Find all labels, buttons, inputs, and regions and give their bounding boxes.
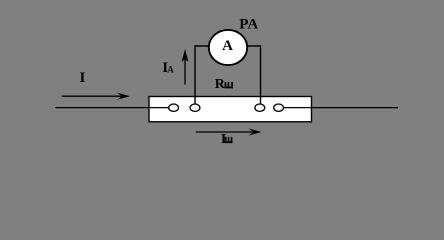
svg-text:A: A [167,65,174,75]
wire main right [284,107,399,109]
resistor Rsh body (shunt) [149,97,312,122]
terminal 4 [274,104,284,111]
svg-text:PA: PA [239,17,258,33]
label Rsh subscript (Cyrillic Sha drawn) [225,82,233,88]
terminal 1 [169,104,179,111]
arrow current Ish [196,128,262,135]
svg-text:I: I [80,70,86,86]
terminal 2 [190,104,200,111]
terminal 3 [255,104,265,111]
ammeter PA [209,30,247,65]
svg-text:A: A [222,38,233,54]
arrow current IA [182,49,189,85]
wire ammeter right branch [246,46,261,105]
label Ish subscript (Cyrillic Sha drawn) [225,137,233,143]
arrow current I [62,93,130,100]
wire main left [55,107,169,109]
svg-text:R: R [215,77,226,92]
wire ammeter left branch [195,46,210,105]
